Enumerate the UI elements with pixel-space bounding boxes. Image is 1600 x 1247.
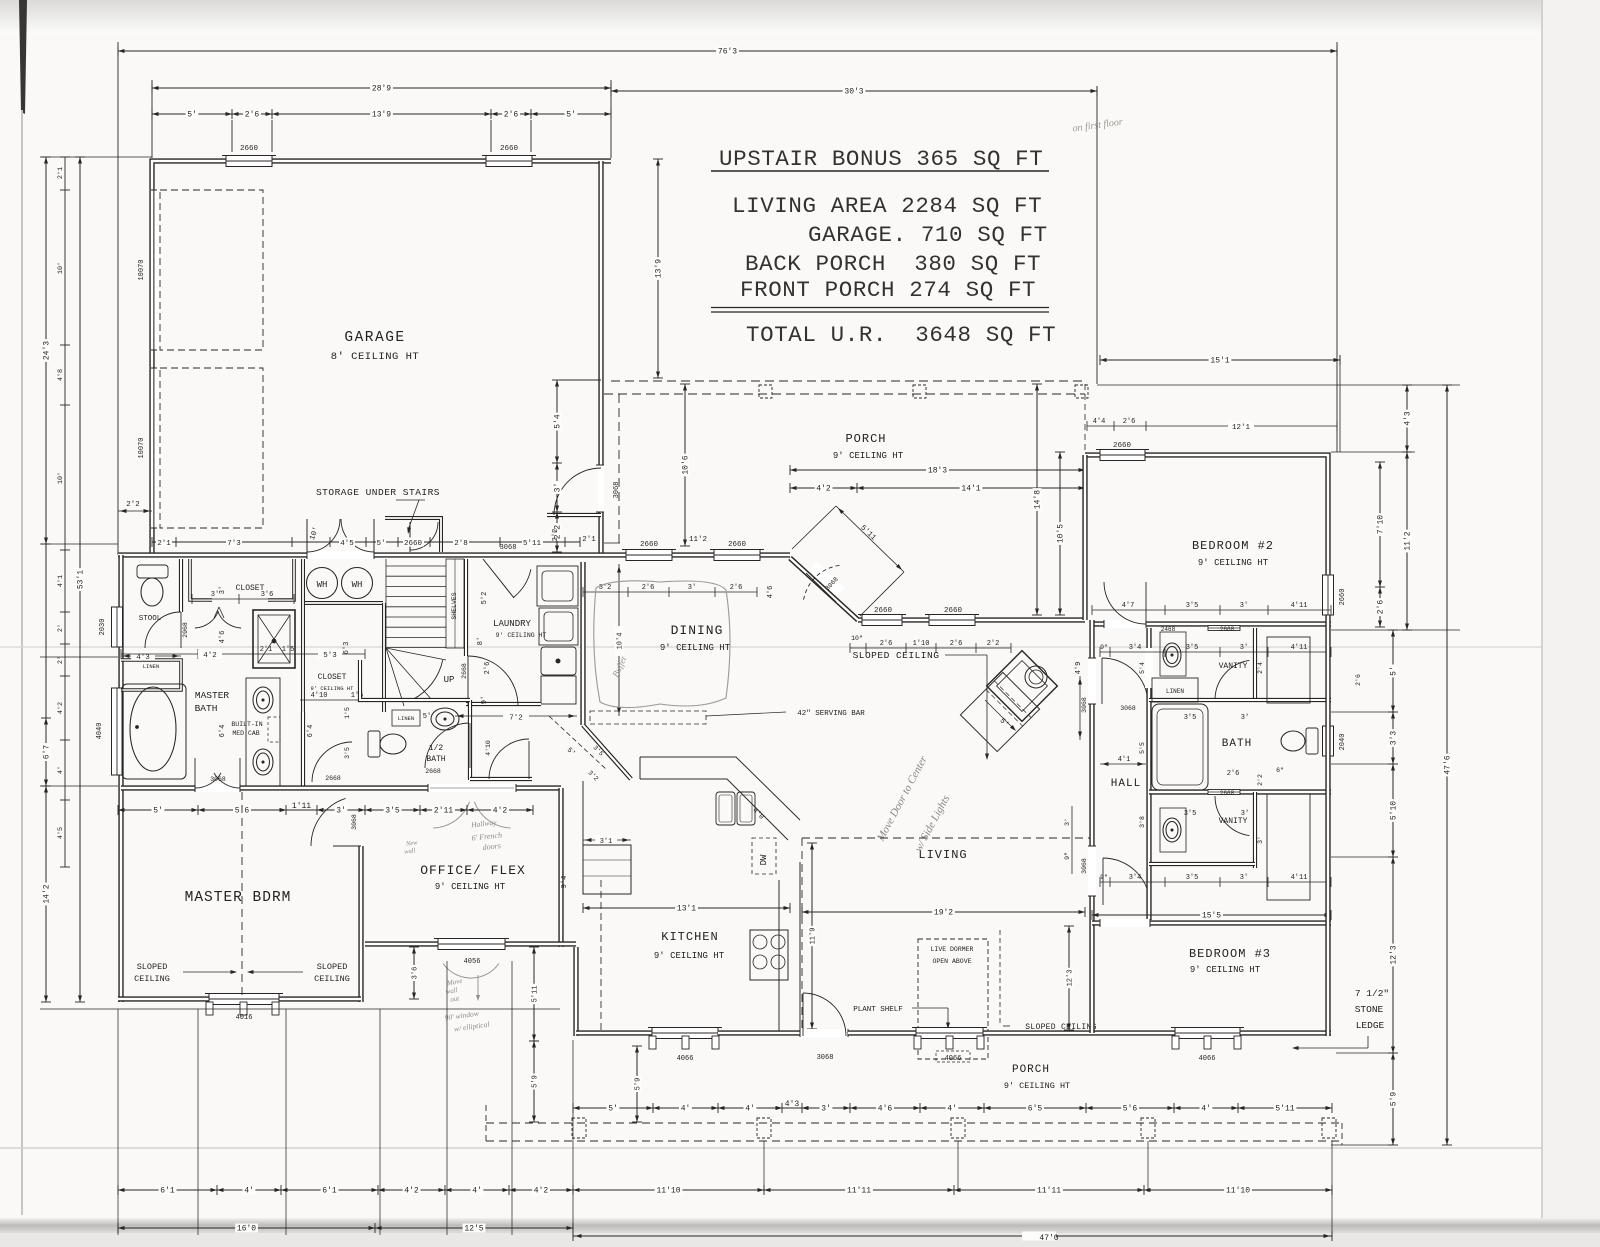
shower stall <box>253 610 295 668</box>
svg-text:4'6: 4'6 <box>878 1105 893 1114</box>
svg-text:9' CEILING HT: 9' CEILING HT <box>660 643 731 653</box>
dim 7-2 laundry <box>455 715 577 717</box>
dim column left mid <box>57 157 70 867</box>
svg-text:2'1: 2'1 <box>57 167 65 179</box>
svg-text:4'5: 4'5 <box>340 540 354 548</box>
corner fireplace diamond <box>987 651 1058 722</box>
text SLOPED CEILING lower right <box>999 930 1001 1026</box>
ext line at porch corner <box>560 379 601 381</box>
svg-text:4'3: 4'3 <box>785 1100 800 1109</box>
svg-text:SLOPED: SLOPED <box>317 962 348 972</box>
double door leaf east <box>373 519 375 552</box>
vanity counter top <box>1160 632 1186 676</box>
svg-text:4016: 4016 <box>236 1014 253 1022</box>
svg-text:3'5: 3'5 <box>344 747 351 759</box>
svg-text:3'8: 3'8 <box>1139 816 1146 828</box>
scan fold line across page <box>0 646 1600 648</box>
vdim 12-3 bedroom3 <box>1064 926 1075 1030</box>
wall living north <box>858 617 1085 622</box>
closet east lower <box>1267 794 1310 900</box>
dim row closet 3ft 3-6 <box>192 598 294 600</box>
toilet stool bowl <box>141 578 163 606</box>
svg-text:3'4: 3'4 <box>1129 644 1142 652</box>
svg-text:10': 10' <box>57 262 65 274</box>
svg-text:3068: 3068 <box>1081 858 1088 874</box>
wall bedroom2 south <box>1092 621 1331 626</box>
arrow sloped west <box>183 971 234 973</box>
svg-text:2068: 2068 <box>182 622 189 638</box>
living window mullions <box>914 1036 921 1049</box>
half bath toilet tank <box>368 731 380 757</box>
svg-text:2'6: 2'6 <box>484 662 492 675</box>
svg-text:LINEN: LINEN <box>398 715 415 722</box>
hall door opening upper <box>1088 658 1096 704</box>
dim 30'3 <box>611 86 1097 97</box>
svg-text:12'1: 12'1 <box>1232 424 1251 432</box>
svg-text:5': 5' <box>608 1105 618 1114</box>
svg-text:7'2: 7'2 <box>509 715 523 723</box>
dim row master bath 4-2 2-1 <box>121 653 365 655</box>
svg-text:2'6: 2'6 <box>730 584 743 592</box>
svg-text:BUILT-IN: BUILT-IN <box>231 721 262 728</box>
svg-text:OPEN ABOVE: OPEN ABOVE <box>932 958 971 965</box>
dim column right inner <box>1388 630 1399 1145</box>
kitchen counter upper <box>640 757 800 840</box>
wall closet center west <box>301 559 305 712</box>
svg-text:2468: 2468 <box>1161 626 1176 633</box>
door opening double doors hall <box>307 551 374 559</box>
window 2660 garage rear west <box>222 156 276 167</box>
dim 53-1 left <box>75 157 86 1002</box>
door sill bar upper <box>1208 626 1240 631</box>
half bath toilet bowl <box>380 734 406 754</box>
svg-text:3': 3' <box>1241 714 1249 722</box>
svg-text:LINEN: LINEN <box>143 663 160 670</box>
svg-text:4'2: 4'2 <box>816 485 831 494</box>
svg-text:4'8: 4'8 <box>57 369 65 381</box>
serving bar dashed <box>590 711 706 724</box>
double door leaf west <box>306 519 308 552</box>
svg-text:5'2: 5'2 <box>481 592 489 605</box>
svg-text:5'9: 5'9 <box>1390 1092 1399 1107</box>
svg-text:LEDGE: LEDGE <box>1356 1020 1385 1031</box>
door arc hall upper <box>1101 658 1103 704</box>
dim 3-1 pantry <box>583 839 631 841</box>
window 4040 west wall <box>112 688 123 775</box>
svg-text:11'10: 11'10 <box>656 1187 680 1196</box>
svg-text:3'6: 3'6 <box>261 591 274 599</box>
kitchen west counter edge <box>582 781 584 845</box>
window 2040 bath <box>1323 726 1334 756</box>
svg-text:STOOL: STOOL <box>139 615 162 623</box>
garage door opening west <box>154 190 160 350</box>
svg-text:5'4: 5'4 <box>554 414 563 429</box>
svg-text:3': 3' <box>821 1105 831 1114</box>
svg-text:8' CEILING HT: 8' CEILING HT <box>331 351 419 363</box>
svg-text:9' CEILING HT: 9' CEILING HT <box>1190 965 1261 975</box>
svg-text:10'4: 10'4 <box>617 633 625 650</box>
svg-text:2040: 2040 <box>1339 734 1347 751</box>
svg-text:GARAGE. 710 SQ FT: GARAGE. 710 SQ FT <box>808 222 1048 248</box>
wall office-kitchen east <box>558 788 563 947</box>
svg-text:DINING: DINING <box>671 623 724 638</box>
svg-text:3068: 3068 <box>817 1054 834 1062</box>
ext drops to garage windows <box>231 120 233 152</box>
opening future french doors <box>428 784 516 792</box>
svg-text:9' CEILING HT: 9' CEILING HT <box>1198 558 1269 568</box>
window 2660 living north west <box>858 615 906 626</box>
water heater WH 1 <box>307 568 338 599</box>
svg-text:18'3: 18'3 <box>928 467 947 476</box>
dim 28'9 garage width <box>152 83 611 94</box>
vanity counter bottom <box>1160 808 1186 852</box>
svg-text:24'3: 24'3 <box>43 341 52 360</box>
wall stub at garage entry <box>547 513 601 517</box>
svg-text:1'5: 1'5 <box>344 707 351 719</box>
window 2660 dining north east <box>710 550 764 561</box>
svg-text:5': 5' <box>1390 666 1399 676</box>
svg-text:4': 4' <box>472 1187 482 1196</box>
dim row bottom spans <box>118 1185 1332 1196</box>
bedroom3 door opening <box>1100 919 1150 927</box>
wall dining-kitchen diagonal <box>583 725 631 779</box>
rot dim 10-4 dining <box>618 564 620 716</box>
porch dashed edge lower <box>604 393 1085 395</box>
svg-text:HALL: HALL <box>1111 778 1141 790</box>
svg-text:3'6: 3'6 <box>412 967 420 980</box>
vdim 10-5 porch <box>1055 452 1066 615</box>
wall laundry south <box>466 702 541 706</box>
door arc diagonal <box>804 565 842 600</box>
svg-text:PLANT SHELF: PLANT SHELF <box>853 1006 903 1014</box>
svg-text:5'11: 5'11 <box>532 986 540 1003</box>
dim 10'6 porch depth <box>680 384 691 546</box>
wall bedroom2 top and right <box>1085 455 1328 620</box>
wall closet center east <box>382 603 386 712</box>
svg-text:4'2: 4'2 <box>203 652 217 660</box>
svg-text:5'11: 5'11 <box>523 540 542 548</box>
wall hall west <box>1089 620 1094 1033</box>
ext line 76ft right <box>1336 42 1338 452</box>
wall house mid horizontal <box>118 552 790 557</box>
svg-text:19'2: 19'2 <box>934 909 953 918</box>
dim row above mid wall <box>152 526 580 552</box>
svg-text:76'3: 76'3 <box>718 48 737 57</box>
svg-text:4'4: 4'4 <box>1093 418 1106 426</box>
svg-text:2668: 2668 <box>1220 626 1235 633</box>
front door leaf and arc <box>802 993 804 1036</box>
kitchen sink basin 2 <box>737 792 755 825</box>
kitchen range <box>750 930 788 980</box>
svg-text:12'3: 12'3 <box>1390 945 1399 964</box>
pencil dining table <box>594 581 730 708</box>
leader sloped ceiling <box>945 654 987 656</box>
wall dining diagonal <box>790 558 858 620</box>
bedroom3 window mullions <box>1172 1036 1179 1049</box>
dim 4-3 linen <box>121 655 181 657</box>
svg-text:3': 3' <box>554 483 563 493</box>
svg-text:2660: 2660 <box>1113 442 1132 450</box>
svg-text:2': 2' <box>57 624 65 632</box>
linen closet master <box>121 660 181 690</box>
bath tub <box>1152 704 1208 790</box>
svg-text:3'5: 3'5 <box>1186 874 1199 882</box>
vdim 5-9 left porch <box>529 1041 540 1122</box>
window 4066 living front <box>912 1028 987 1039</box>
vdim 5-11 office-porch <box>529 947 540 1041</box>
svg-text:3'5: 3'5 <box>385 807 400 816</box>
svg-text:4066: 4066 <box>1199 1055 1216 1063</box>
svg-text:3'1: 3'1 <box>600 838 613 846</box>
svg-text:10070: 10070 <box>138 437 146 458</box>
scan left page edge light <box>21 110 23 1215</box>
svg-text:11'10: 11'10 <box>1226 1187 1250 1196</box>
svg-text:2'2: 2'2 <box>987 640 1000 648</box>
svg-text:2668: 2668 <box>425 768 441 775</box>
svg-text:2'6: 2'6 <box>245 111 260 120</box>
svg-text:3068: 3068 <box>500 544 517 552</box>
svg-text:2'1: 2'1 <box>260 646 273 654</box>
wall front kitchen west <box>576 1030 652 1035</box>
dim column left outer <box>41 157 52 1002</box>
svg-text:3': 3' <box>1240 644 1248 652</box>
svg-text:15'1: 15'1 <box>1210 357 1229 366</box>
svg-text:MASTER BDRM: MASTER BDRM <box>185 890 292 906</box>
svg-text:4056: 4056 <box>464 958 481 966</box>
svg-text:5': 5' <box>423 713 431 721</box>
bath toilet <box>1306 728 1318 754</box>
svg-text:3'5: 3'5 <box>1184 810 1197 818</box>
svg-text:3068: 3068 <box>613 482 621 499</box>
dim 15-5 <box>1092 910 1331 921</box>
dim 76'3 overall width <box>118 46 1337 57</box>
porch dashed west <box>618 394 620 546</box>
svg-text:4'1: 4'1 <box>1118 756 1131 764</box>
dim 15-1 <box>1100 355 1340 366</box>
svg-text:5': 5' <box>376 540 385 548</box>
svg-text:BATH: BATH <box>426 755 445 764</box>
svg-text:2'6: 2'6 <box>950 640 963 648</box>
svg-text:LIVING: LIVING <box>918 848 967 862</box>
svg-text:4'6: 4'6 <box>767 586 775 599</box>
rot dim 3-6 office notch <box>409 947 420 999</box>
svg-text:4'2: 4'2 <box>57 702 65 714</box>
svg-text:doors: doors <box>482 841 501 852</box>
svg-text:6'5: 6'5 <box>1028 1105 1043 1114</box>
svg-text:10'6: 10'6 <box>682 455 691 474</box>
svg-text:LINEN: LINEN <box>1166 688 1184 695</box>
svg-text:7 1/2″: 7 1/2″ <box>1355 988 1389 999</box>
svg-text:3': 3' <box>1241 810 1249 818</box>
svg-text:3068: 3068 <box>1081 697 1088 713</box>
svg-text:47'0: 47'0 <box>1039 1234 1058 1243</box>
svg-text:3068: 3068 <box>1120 705 1136 712</box>
stone ledge arrow <box>1296 1047 1368 1049</box>
door arc kitchen hall <box>489 739 529 779</box>
dim row porch columns <box>573 1100 1332 1114</box>
svg-text:5'11: 5'11 <box>1275 1105 1294 1114</box>
svg-text:9″: 9″ <box>1064 852 1071 860</box>
svg-text:3': 3' <box>1240 874 1248 882</box>
vanity door opening top <box>1145 648 1153 688</box>
svg-text:2660: 2660 <box>944 607 963 615</box>
wall garage top and left <box>152 161 611 555</box>
svg-text:4'2: 4'2 <box>493 807 508 816</box>
svg-text:2668: 2668 <box>461 663 468 679</box>
porch post C <box>951 1118 965 1138</box>
wall front living <box>848 1030 1092 1035</box>
svg-text:4'11: 4'11 <box>1291 644 1308 652</box>
wall WH closet south <box>303 601 383 605</box>
svg-text:9'4: 9'4 <box>561 876 569 889</box>
svg-text:1'10: 1'10 <box>913 640 930 648</box>
svg-text:2'2: 2'2 <box>126 501 140 509</box>
closet north walls <box>190 559 212 600</box>
dim 7-10 2-6 right <box>1375 462 1386 627</box>
svg-text:4'3: 4'3 <box>136 654 150 662</box>
bath walls <box>1210 698 1331 702</box>
svg-text:4'9: 4'9 <box>1075 662 1083 675</box>
svg-text:3': 3' <box>336 807 346 816</box>
sink vanity bottom <box>1163 818 1181 842</box>
door arc vanity top <box>1215 660 1249 700</box>
svg-text:4'11: 4'11 <box>1291 874 1308 882</box>
water heater WH 2 <box>342 568 373 599</box>
svg-text:BEDROOM #3: BEDROOM #3 <box>1189 947 1271 961</box>
svg-text:5'10: 5'10 <box>1390 801 1399 820</box>
dim 4-1 hall <box>1100 763 1146 765</box>
kitchen sloped dashed vline <box>600 880 602 1030</box>
svg-text:4040: 4040 <box>96 723 104 740</box>
svg-text:9' CEILING HT: 9' CEILING HT <box>654 951 725 961</box>
med cab dashed <box>268 717 280 742</box>
ext lines right wing <box>1331 711 1393 713</box>
svg-text:3'5: 3'5 <box>1186 644 1199 652</box>
svg-text:4'10: 4'10 <box>485 740 492 756</box>
svg-text:4': 4' <box>681 1105 691 1114</box>
sink vanity top <box>1163 643 1181 667</box>
vanity sink 2 <box>253 749 273 775</box>
svg-text:3': 3' <box>211 591 219 599</box>
svg-text:2'6: 2'6 <box>1123 418 1136 426</box>
svg-text:14'1: 14'1 <box>961 485 980 494</box>
svg-text:4'7: 4'7 <box>1122 602 1135 610</box>
svg-text:3'4: 3'4 <box>1129 874 1142 882</box>
porch post E <box>1322 1118 1336 1138</box>
vanity counter master <box>246 678 280 790</box>
svg-text:30'3: 30'3 <box>844 88 863 97</box>
ext line right porch <box>1097 384 1460 386</box>
window 2660 living north east <box>925 615 979 626</box>
porch post D <box>1141 1118 1155 1138</box>
svg-text:3068: 3068 <box>351 814 358 830</box>
svg-text:6'4: 6'4 <box>219 725 227 738</box>
svg-text:3': 3' <box>688 584 696 592</box>
wall front kitchen east <box>718 1030 800 1035</box>
svg-text:4'1: 4'1 <box>57 575 65 587</box>
pencil bay sketch <box>443 964 499 979</box>
label 4066 dashed box <box>936 1051 970 1062</box>
dryer box <box>539 608 578 645</box>
svg-text:5': 5' <box>187 111 197 120</box>
ext dashed bedroom2 west <box>1084 384 1086 452</box>
svg-text:13'1: 13'1 <box>677 905 696 914</box>
svg-text:6'7: 6'7 <box>43 745 52 760</box>
svg-text:KITCHEN: KITCHEN <box>661 930 718 944</box>
svg-text:CEILING: CEILING <box>134 974 170 984</box>
wall front bedroom3 <box>1092 1030 1331 1035</box>
svg-text:2'6: 2'6 <box>642 584 655 592</box>
svg-text:SLOPED: SLOPED <box>137 962 168 972</box>
svg-text:2'6: 2'6 <box>880 640 893 648</box>
svg-text:2660: 2660 <box>404 540 423 548</box>
svg-text:UP: UP <box>444 675 455 685</box>
ext stubs left margin <box>40 156 152 158</box>
svg-text:4': 4' <box>947 1105 957 1114</box>
ext 15-1 right <box>1339 355 1341 452</box>
svg-text:3': 3' <box>1240 602 1248 610</box>
svg-text:SLOPED CEILING: SLOPED CEILING <box>853 650 940 661</box>
svg-text:SHELVES: SHELVES <box>451 592 458 619</box>
svg-text:3068: 3068 <box>210 776 226 783</box>
door opening garage entry <box>598 465 604 512</box>
svg-text:2660: 2660 <box>728 541 747 549</box>
svg-text:14'2: 14'2 <box>43 884 52 903</box>
ext line 76ft left <box>117 42 119 555</box>
svg-text:2'6: 2'6 <box>1227 770 1240 778</box>
svg-text:13'9: 13'9 <box>372 111 391 120</box>
ext line bedroom2 top right <box>1331 451 1415 453</box>
svg-text:2668: 2668 <box>1220 790 1235 797</box>
svg-text:12'3: 12'3 <box>1067 970 1075 987</box>
door 3068 in diagonal <box>809 562 845 597</box>
svg-text:4': 4' <box>745 1105 755 1114</box>
kitchen pantry <box>583 845 631 894</box>
svg-text:VANITY: VANITY <box>1219 817 1248 826</box>
svg-text:11'11: 11'11 <box>847 1187 871 1196</box>
svg-text:2'11: 2'11 <box>434 807 453 816</box>
dim row bath 2 <box>1100 881 1331 883</box>
window 2660 dining north west <box>622 550 676 561</box>
door opening bedroom2 <box>1104 620 1146 628</box>
wall office north <box>365 785 561 790</box>
porch post 3 <box>1075 385 1088 398</box>
wall office south <box>365 941 576 946</box>
svg-text:STONE: STONE <box>1355 1004 1384 1015</box>
door arc stair hall <box>467 656 469 706</box>
master tub <box>122 684 186 779</box>
refrigerator box <box>541 676 576 704</box>
svg-text:9' CEILING HT: 9' CEILING HT <box>435 882 506 892</box>
vanity sink 1 <box>253 687 273 713</box>
svg-text:11'9: 11'9 <box>810 928 818 945</box>
svg-text:2660: 2660 <box>500 145 519 153</box>
vdim 14-8 porch <box>1032 384 1043 615</box>
svg-text:4066: 4066 <box>677 1055 694 1063</box>
svg-text:2'6: 2'6 <box>1377 600 1386 615</box>
dim row master bdrm <box>118 802 533 816</box>
svg-text:9' CEILING HT: 9' CEILING HT <box>311 685 355 692</box>
svg-text:6'1: 6'1 <box>160 1187 175 1196</box>
closet bifold doors <box>195 611 219 628</box>
dim row bedroom2 bottom <box>1092 609 1331 611</box>
scan fold line lower <box>0 1147 1600 1149</box>
svg-text:16'0: 16'0 <box>237 1225 256 1234</box>
porch post B <box>757 1118 771 1138</box>
svg-text:42″ SERVING BAR: 42″ SERVING BAR <box>797 710 865 718</box>
leader storage under stairs <box>396 499 425 501</box>
wall bedroom2 west <box>1082 455 1087 620</box>
